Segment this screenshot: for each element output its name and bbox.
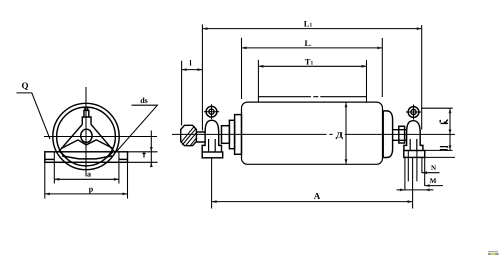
plate corner cut left	[60, 152, 66, 157]
dim M	[425, 177, 443, 187]
plate step left	[45, 158, 55, 160]
bracket W rib	[62, 140, 113, 148]
grease fitting stem	[82, 107, 91, 124]
dim K (vertical)	[440, 108, 451, 134]
leader Q	[17, 93, 51, 139]
leader ds	[117, 105, 158, 151]
dim N	[422, 164, 440, 174]
dim t extension lines	[128, 151, 158, 153]
right shaft boss	[399, 126, 405, 143]
pulley outer rim circle	[53, 103, 119, 169]
dim base width	[397, 189, 434, 192]
dim H (vertical)	[440, 134, 452, 150]
svg-text:Д: Д	[336, 130, 344, 139]
hub flat arc	[62, 156, 112, 159]
svg-text:N: N	[431, 164, 436, 172]
dim L (drum length)	[242, 38, 383, 99]
dim t	[142, 131, 152, 168]
watermark	[488, 251, 499, 255]
belt contact line	[258, 96, 366, 98]
right bearing base	[404, 151, 425, 158]
pulley inner rim circle	[57, 107, 116, 166]
svg-text:L.: L.	[304, 38, 312, 48]
drum shell	[242, 102, 383, 164]
vertical centerline	[85, 87, 87, 177]
right shaft segment	[393, 130, 407, 141]
left hub step B	[235, 115, 242, 155]
left hub step A	[229, 120, 234, 148]
svg-text:M: M	[430, 177, 437, 185]
dim l extension lines	[182, 24, 203, 130]
svg-text:A: A	[314, 191, 321, 201]
dim D (drum diameter)	[336, 102, 348, 164]
bracket left arm	[59, 124, 83, 151]
dim a	[54, 170, 119, 181]
plate corner cut right	[107, 152, 113, 157]
svg-text:Q: Q	[21, 81, 28, 91]
left shaft boss	[222, 126, 230, 144]
svg-text:T1: T1	[305, 56, 314, 66]
dim K ext line	[421, 107, 453, 109]
shaft hole	[81, 129, 92, 142]
horizontal centerline	[44, 136, 157, 138]
svg-text:l: l	[189, 59, 192, 68]
dim A extension left	[211, 158, 213, 208]
right hub flange	[383, 111, 392, 158]
plate step right	[119, 158, 128, 160]
dim A	[212, 191, 413, 203]
left bearing pedestal lines	[209, 139, 216, 152]
ext line base top	[425, 149, 453, 151]
dim l	[182, 59, 203, 72]
take-up slot lines	[405, 151, 425, 209]
bracket right arm	[91, 124, 115, 151]
svg-text:a: a	[87, 170, 91, 179]
ext line base bottom	[425, 156, 455, 158]
shaft end nut	[181, 125, 197, 145]
dim L1 (overall)	[202, 19, 421, 130]
svg-text:p: p	[89, 185, 94, 194]
dim T1 (face width)	[258, 56, 366, 102]
dim a extension lines	[53, 152, 55, 184]
main shaft centerline	[172, 133, 455, 135]
left bearing bolt	[204, 104, 219, 119]
svg-text:ds: ds	[140, 96, 148, 105]
nut hatching	[182, 126, 197, 146]
left bearing housing	[202, 120, 221, 152]
right bearing housing	[404, 121, 423, 151]
svg-text:L1: L1	[304, 19, 313, 29]
shaft left segment	[196, 132, 205, 142]
right bearing bolt	[406, 105, 421, 120]
right bearing pedestal lines	[410, 139, 417, 151]
base plate	[45, 152, 128, 163]
dim p extension lines	[44, 162, 46, 198]
dim p	[45, 185, 128, 196]
left bearing base	[202, 152, 223, 158]
